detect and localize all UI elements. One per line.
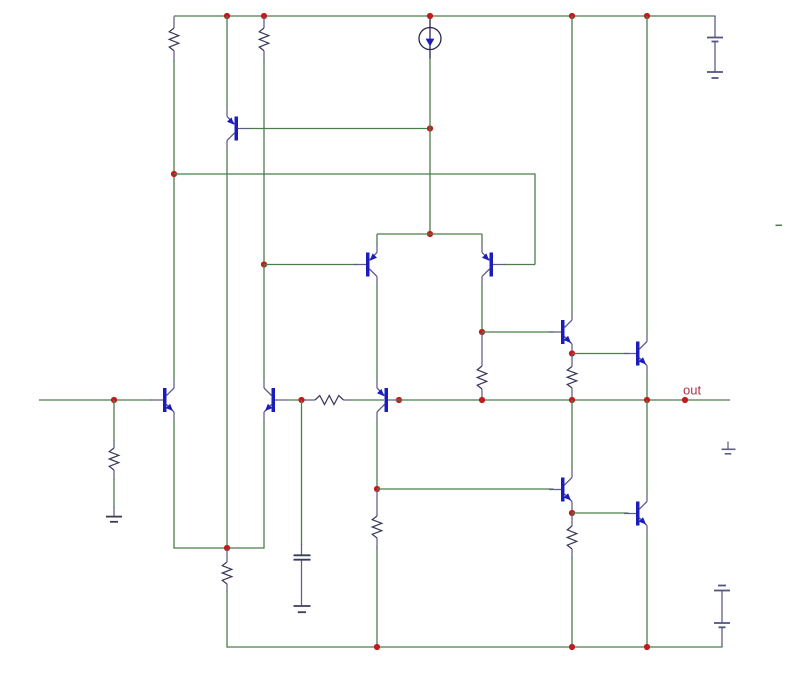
node Q7 emitter / Q8 base / R6 [569,350,575,356]
net marker dash (right) [776,224,783,226]
wire x=572 out line to Q9 collector [571,400,573,470]
wire Q9 emitter to node [571,510,573,514]
transistor Q10 (NPN output lower) [624,494,647,534]
wire R9 top lead [113,400,115,441]
wire Q1 emitter to top rail [226,16,228,109]
ground G2 (floating, right) [722,442,736,454]
node Q5 base / out line [396,397,402,403]
battery V2 (negative supply) [714,586,730,648]
node bottom rail / Q10 emitter [644,644,650,650]
node Q4 base / R4 / C1 [298,397,304,403]
wire to Q9 base [377,488,554,490]
wire Q10 emitter to bottom rail [646,534,648,648]
node R1 / feedback wire junction [171,171,177,177]
wire to Q7 base [482,331,554,333]
wire Q1 base to current source node [250,128,430,130]
wire Q4 emitter down [263,420,265,548]
resistor R5 [477,333,487,399]
wire input to Q6 base [39,399,153,401]
node junction top rail / R2 [261,13,267,19]
wire Q1 collector down x=227 [226,149,228,549]
ground G1 [106,507,122,522]
wire to Q8 base [572,353,629,355]
resistor R6 [567,355,577,400]
node diff pair emitter junction [427,231,433,237]
transistor Q9 (NPN driver lower) [549,470,572,510]
wire R9 bottom [113,479,115,508]
wire to Q3 base [504,264,535,266]
node I1 output / Q1 base [427,125,433,131]
wire Q7 emitter to node [571,352,573,354]
wire x=647 top rail to Q8 collector [646,16,648,334]
wire to Q3 emitter [481,234,483,245]
node out line / R5 [479,397,485,403]
transistor Q3 (PNP diff pair right) [482,245,505,285]
resistor R8 [372,490,382,548]
node junction top rail / Q7 collector [569,13,575,19]
transistor Q6 (NPN input follower) [151,380,174,420]
node y=548 / R3 [224,545,230,551]
node Q3 collector / Q7 base / R5 [479,329,485,335]
node out [682,397,688,403]
wire R1 bottom to Q6 collector [173,61,175,381]
node input / R9 [111,397,117,403]
node junction top rail / Q1 emitter [224,13,230,19]
wire bottom negative rail y=647 [227,646,723,648]
resistor R3 [222,549,232,592]
node junction top rail / I1 [427,13,433,19]
wire x=647 out line to Q10 collector [646,400,648,494]
node bottom rail / R7 [569,644,575,650]
battery V1 (positive supply) [707,16,723,78]
svg-text:out: out [683,383,701,398]
wire R8 to bottom rail [376,547,378,647]
transistor Q5 (PNP, x=377) [377,380,400,420]
battery negative plate symbol below C1 [294,606,311,612]
wire Q4 base to R4 [287,399,306,401]
wire R3 to bottom rail [226,591,228,648]
transistor Q2 (PNP diff pair left) [354,245,377,285]
node bottom rail / R8 [374,644,380,650]
node out line / Q8 emitter [644,397,650,403]
wire down to Q4 collector [263,265,265,381]
node Q5 collector / Q9 base / R8 [374,486,380,492]
node Q9 emitter / Q10 base / R7 [569,510,575,516]
node junction top rail / Q8 collector [644,13,650,19]
wire x=535 down [534,173,536,264]
wire Q2 base left segment [264,264,357,266]
node R2 / Q2 base / Q4 collector [261,261,267,267]
wire out line y=400 [395,399,730,401]
wire Q4 base node down to C1 [301,400,303,545]
node out line / R6 [569,397,575,403]
wire Q8 emitter to out line [646,374,648,401]
transistor Q7 (NPN driver upper) [549,312,572,352]
transistor Q8 (NPN output upper) [624,334,647,374]
wire to Q2 emitter [376,234,378,245]
resistor R2 [259,17,269,62]
wire Q2 collector down to Q5 [376,285,378,381]
transistor Q1 (PNP, top mirror) [227,109,250,149]
wire R7 to bottom rail [571,557,573,647]
wire y=548 [173,547,264,549]
wire diff pair emitter rail y=234 [377,233,482,235]
resistor R9 [109,440,119,480]
transistor Q4 (NPN, x=264) [264,380,287,420]
wire y=174 to Q3 base branch [174,173,535,175]
resistor R4 (horizontal) [305,396,352,405]
wire R4 to Q5 base bar [352,399,384,401]
wire I1 to diff pair emitters [429,58,431,234]
wire x=572 top rail to Q7 collector [571,16,573,312]
wire Q5 collector down [376,420,378,489]
current source I1 [419,19,441,59]
wire R2 bottom to junction [263,61,265,265]
wire top positive rail y=16 [174,15,716,17]
resistor R7 [567,514,577,558]
wire Q6 emitter down [173,420,175,548]
wire to Q10 base [572,512,629,514]
capacitor C1 [294,544,311,605]
wire Q3 collector down [481,285,483,333]
resistor R1 [169,17,179,62]
